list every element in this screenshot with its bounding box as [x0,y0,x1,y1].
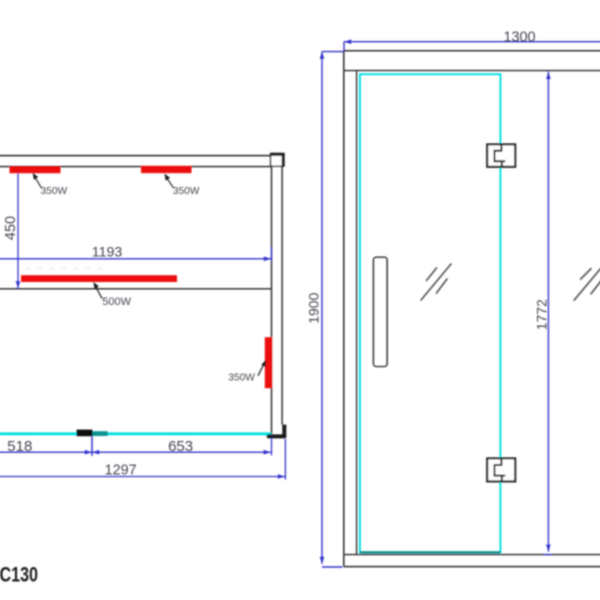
frame left inner line [356,71,358,555]
corner post bottom-right (L shape) [269,434,285,438]
extension connector 1900 top [322,51,344,53]
extension tick for 653 at wall [271,438,273,456]
wall top inner line [0,166,272,168]
door handle (front view) [374,257,387,366]
svg-text:1193: 1193 [92,245,123,261]
heater 350W #2 (top middle red bar) [141,166,192,173]
frame left outer line [343,51,345,567]
heater 500W (long red bar) [21,275,177,282]
svg-text:350W: 350W [41,186,68,197]
frame bottom lower line [344,566,600,568]
dimension 1193 line [0,258,271,260]
extension connector 1900 bottom [322,566,343,568]
frame top outer line [344,50,600,52]
handle plan teal part [93,431,108,436]
dimension 450 vertical line [17,173,19,288]
wall right outer line [281,166,283,424]
dimension 1297 line [0,476,285,478]
heater 350W #3 (right wall vertical red bar) [265,337,272,388]
glass front cyan line (plan) [0,432,271,435]
heater 350W #1 (top left red bar) [10,166,61,173]
leader arrow 350W #1 [35,177,42,188]
svg-text:350W: 350W [228,372,255,383]
handle plan black part [77,430,93,437]
wall top outer line [0,155,272,157]
leader arrow 500W [95,286,102,299]
extension tick for 1193 [271,247,273,261]
svg-text:518: 518 [7,438,32,455]
extension tick for 1297 [284,439,286,480]
glass hatch marks on door [421,264,451,300]
svg-text:1900: 1900 [306,292,322,323]
extension connector 1300 [343,42,345,51]
svg-text:500W: 500W [102,296,131,308]
svg-text:653: 653 [168,438,193,455]
svg-text:1300: 1300 [503,29,535,45]
wall right inner line [271,167,273,435]
svg-text:1297: 1297 [105,463,137,479]
door glass cyan outline [360,74,501,552]
hinge top [487,144,515,166]
svg-text:C130: C130 [0,563,38,587]
dim tick at handle (518/653 split) [91,436,93,456]
hidden dashed line [25,267,103,269]
hinge bottom [487,458,515,481]
leader arrow 350W #2 [166,177,173,188]
frame bottom upper line [344,554,600,556]
extension tick 1772 bottom [544,554,553,556]
frame top inner line [344,70,600,72]
door glass bottom teal edge [360,551,501,553]
dimension 1900 line [321,52,323,564]
bench front edge line [0,288,272,290]
dimension 518 / 653 line [0,451,271,453]
leader arrow 350W #3 [258,364,264,376]
svg-text:450: 450 [3,216,19,240]
dimension 1772 line [547,72,549,552]
glass hatch marks on right fixed panel [574,265,600,300]
corner post top-right [271,153,284,166]
dimension 1300 line [344,41,600,43]
svg-text:1772: 1772 [534,299,550,330]
svg-text:350W: 350W [173,186,200,197]
